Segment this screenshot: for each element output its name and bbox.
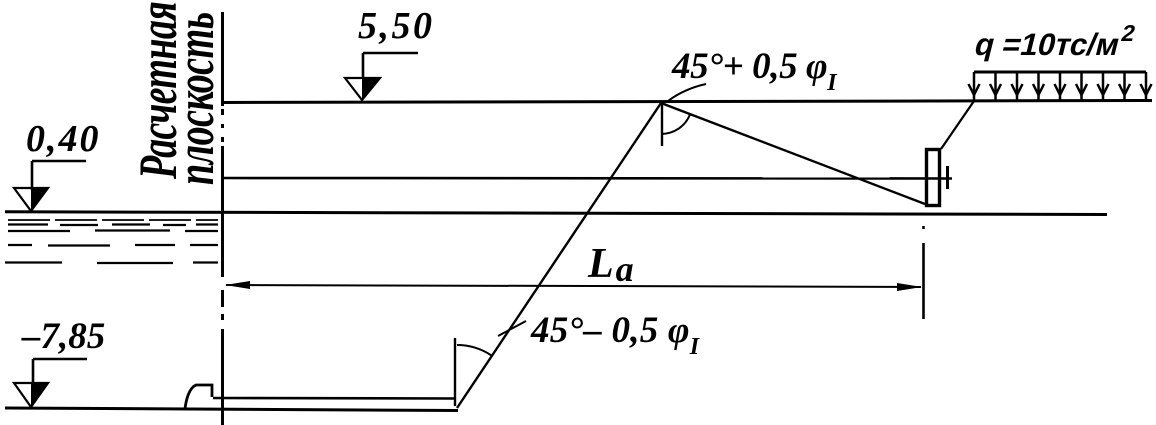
svg-text:q =10тс/м2: q =10тс/м2 xyxy=(971,20,1138,62)
rising slip line (45-0.5phi) xyxy=(457,103,661,408)
anchor rod hinge tick xyxy=(946,166,949,189)
water hatching row 4 xyxy=(8,244,218,247)
dredge bottom line (elev -7.85) xyxy=(5,408,458,411)
svg-text:45°– 0,5 φI: 45°– 0,5 φI xyxy=(530,310,701,360)
elevation mark 5,50 bar xyxy=(363,53,418,79)
anchor plate U1 xyxy=(927,150,940,206)
elevation mark 0,40 triangle xyxy=(14,188,48,211)
elevation mark -7,85 bar xyxy=(33,359,87,383)
distributed load band top line xyxy=(974,71,1146,74)
water level line xyxy=(5,212,1107,215)
leader to 45+0.5phi label xyxy=(668,84,706,101)
elevation mark 5,50 triangle xyxy=(345,78,380,100)
wall toe step outline xyxy=(185,385,212,409)
La extension line (dash-dot) xyxy=(922,226,925,319)
water hatching row 3 xyxy=(8,229,218,232)
water hatching row 5 xyxy=(5,261,218,264)
La dimension line xyxy=(226,285,921,287)
water hatching row 1 xyxy=(8,219,218,221)
La right arrowhead xyxy=(897,283,922,291)
svg-text:0,40: 0,40 xyxy=(26,118,101,160)
leader from load edge to plate xyxy=(941,101,974,149)
vertical tick at upper wedge vertex xyxy=(661,104,663,146)
svg-text:5,50: 5,50 xyxy=(358,5,435,47)
ground surface line (elev 5.50) xyxy=(221,101,1152,103)
svg-text:45°+ 0,5 φI: 45°+ 0,5 φI xyxy=(671,46,838,96)
svg-text:–7,85: –7,85 xyxy=(21,316,105,357)
La left arrowhead xyxy=(225,281,250,289)
angle arc at lower vertex xyxy=(457,345,492,356)
svg-text:плоскость: плоскость xyxy=(166,12,226,185)
upper dredge line xyxy=(213,397,455,400)
load arrows xyxy=(969,72,1152,101)
elevation mark 0,40 bar xyxy=(32,161,86,190)
svg-text:La: La xyxy=(587,241,634,289)
elevation mark -7,85 triangle xyxy=(14,383,48,407)
leader to 45-0.5phi label xyxy=(498,321,526,336)
descending slip line to anchor plate xyxy=(661,103,925,204)
calculation plane vertical dash-dot line xyxy=(221,12,224,425)
angle arc at upper vertex xyxy=(661,115,690,135)
water hatching row 2 xyxy=(8,223,218,226)
anchor rod line xyxy=(221,177,952,180)
vertical tick at lower wedge vertex xyxy=(454,338,456,406)
